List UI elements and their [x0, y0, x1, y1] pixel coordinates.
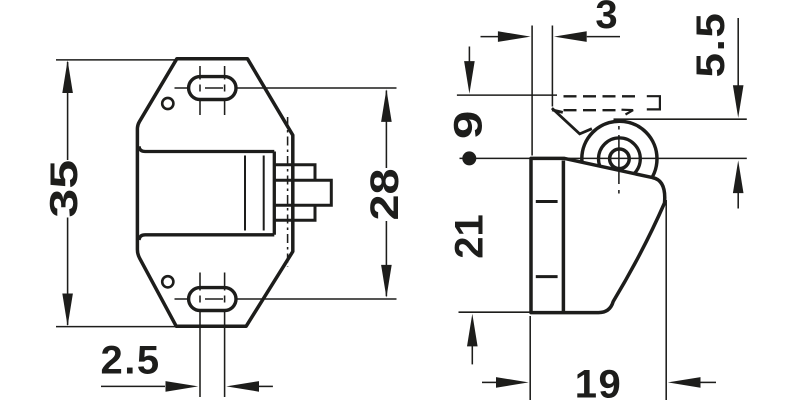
- dim 35 arrow up: [62, 60, 73, 93]
- dim 9 reference dot: [462, 151, 476, 165]
- dim 19 left tail: [482, 381, 497, 383]
- roller horizontal centerline: [460, 157, 747, 159]
- dim 5.5 arrow up: [733, 160, 744, 193]
- svg-text:2.5: 2.5: [101, 339, 161, 383]
- svg-text:21: 21: [448, 214, 492, 259]
- dim 9 top extension line: [457, 94, 557, 96]
- roller middle circle: [599, 138, 641, 180]
- dim 9 arrow down: [464, 61, 475, 94]
- svg-text:19: 19: [575, 363, 623, 400]
- latch tongue middle step: [274, 180, 331, 205]
- counterpart dashed top line: [564, 95, 638, 97]
- dim 19 right tail: [701, 381, 717, 383]
- bottom slot vertical center marks / 2.5 extensions: [199, 273, 201, 398]
- latch tongue vertical centerline: [287, 117, 289, 267]
- dim 3 arrow right: [498, 31, 531, 42]
- extension line mounting face: [531, 26, 533, 156]
- housing inner line 1: [244, 156, 246, 231]
- side body outline: [531, 158, 665, 312]
- flange tick upper: [536, 200, 558, 203]
- housing top edge: [139, 146, 274, 151]
- dim 28 line: [385, 91, 387, 297]
- svg-text:28: 28: [363, 168, 407, 220]
- dim 3 right tail: [587, 36, 620, 38]
- dim 19 arrow left: [668, 377, 701, 388]
- roller outer circle: [582, 121, 657, 196]
- dim 19 arrow right: [496, 377, 529, 388]
- flange right edge: [562, 161, 566, 313]
- dim 2.5 arrow left: [226, 381, 259, 392]
- top screw hole: [162, 98, 173, 109]
- dim 19 left extension line: [529, 316, 531, 400]
- bottom screw hole: [162, 276, 173, 287]
- svg-text:9: 9: [445, 111, 490, 139]
- dim 5.5 arrow down: [733, 85, 744, 118]
- bottom slot horizontal centerline: [175, 298, 397, 300]
- dim 5.5 line bottom: [737, 192, 739, 209]
- catch prong profile: [552, 108, 592, 134]
- housing bottom edge: [139, 235, 274, 240]
- dim 21 bottom extension line: [459, 311, 531, 313]
- svg-text:35: 35: [41, 160, 85, 218]
- dim 5.5 line top: [737, 18, 739, 86]
- svg-text:3: 3: [595, 0, 617, 37]
- housing inner line 2: [263, 156, 265, 231]
- roller hub circle: [610, 149, 630, 169]
- dim 3 left tail: [481, 36, 499, 38]
- roller vertical centerline: [618, 126, 620, 194]
- counterpart end bracket: [647, 96, 660, 109]
- dim 3 arrow left: [554, 31, 587, 42]
- latch tongue lower step: [274, 205, 315, 220]
- dim 2.5 line right tail: [259, 385, 273, 387]
- dim 2.5 line left tail: [101, 385, 165, 387]
- dim 5.5 top extension line: [614, 118, 747, 120]
- dim 21 line: [471, 346, 473, 365]
- counterpart arrow tip: [622, 110, 634, 115]
- dim 35 arrow down: [62, 294, 73, 327]
- dim 2.5 arrow right: [166, 381, 199, 392]
- top slot horizontal centerline / 28 extension: [175, 87, 397, 89]
- dim 28 arrow down: [381, 265, 392, 298]
- front plate outline: [137, 59, 292, 326]
- dim 21 arrow up: [467, 314, 478, 347]
- dim 35 line: [67, 62, 69, 325]
- dim 28 arrow up: [381, 89, 392, 122]
- dim 35 top extension line: [56, 59, 176, 61]
- flange tick lower: [536, 275, 558, 278]
- housing right edge: [273, 152, 276, 235]
- dim 35 bottom extension line: [56, 326, 178, 328]
- dim 9 line: [468, 47, 470, 63]
- top mounting slot: [189, 77, 236, 100]
- latch tongue upper step: [274, 165, 315, 180]
- dim 19 right extension line: [665, 200, 667, 400]
- top slot vertical center marks: [199, 66, 201, 115]
- svg-text:5.5: 5.5: [688, 11, 733, 77]
- counterpart dashed bottom line: [564, 109, 622, 111]
- extension line prong tip: [551, 26, 553, 107]
- catch prong upper lip: [552, 110, 563, 113]
- bottom mounting slot: [189, 288, 236, 311]
